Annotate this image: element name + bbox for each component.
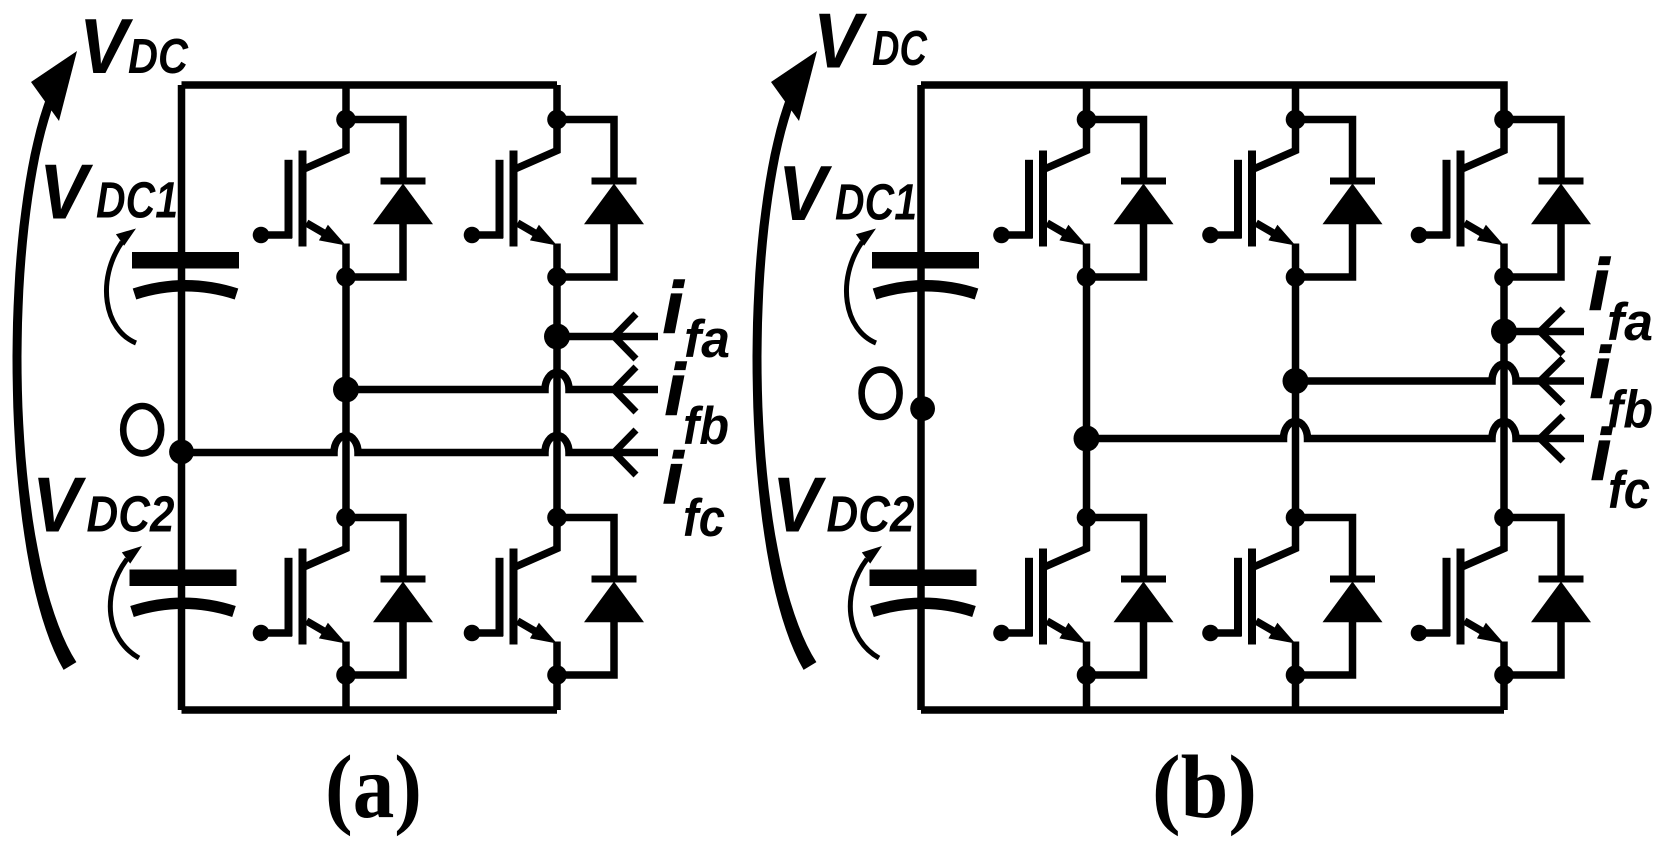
svg-text:DC: DC xyxy=(872,22,927,76)
node: b leg2 top junction xyxy=(1286,110,1306,130)
arrow: ifc current arrow (b) xyxy=(1540,416,1563,461)
svg-text:fc: fc xyxy=(1608,461,1650,520)
svg-text:fa: fa xyxy=(1607,293,1653,352)
node: phase a tap (a) xyxy=(544,324,570,350)
wire: left DC-link rail (b) xyxy=(917,85,925,710)
node: leg1 bottom junction xyxy=(336,665,356,685)
node label O (a) xyxy=(123,406,161,453)
transistor Q1 (b, top leg1) xyxy=(993,120,1086,278)
node: phase b tap (a) xyxy=(333,377,359,403)
arrow: ifc current arrow (a) xyxy=(614,430,636,475)
node: leg2 upper-emitter junction xyxy=(547,267,567,287)
wire: leg B1 drop from rail xyxy=(1083,85,1091,120)
svg-text:DC1: DC1 xyxy=(835,174,917,231)
svg-text:fb: fb xyxy=(1607,381,1653,440)
node: leg2 lower top junction xyxy=(547,508,567,528)
wire: phase c output line ifc (b) with hops xyxy=(1087,422,1585,439)
wire: top DC+ rail (b) xyxy=(921,85,1504,120)
wire: leg A2 mid section xyxy=(553,277,561,518)
node O midpoint dot (a) xyxy=(169,440,194,465)
transistor Q2 (a, top leg2) xyxy=(464,120,557,278)
arrow: VDC2 measurement arc (b) xyxy=(850,559,879,658)
wire: leg A1 mid section xyxy=(342,277,350,518)
wire: phase a output line ifa (a) xyxy=(557,333,658,341)
node: phase a tap (b) xyxy=(1491,319,1517,345)
wire: leg B2 bottom to rail xyxy=(1292,675,1300,710)
arrow: VDC measurement arc (a) xyxy=(13,96,77,670)
svg-text:fc: fc xyxy=(683,489,725,548)
wire: top DC+ rail (a) xyxy=(182,81,558,89)
transistor Q1 (a, top leg1) xyxy=(253,120,346,278)
svg-text:fa: fa xyxy=(684,310,730,369)
node: b leg1 bottom junction xyxy=(1077,665,1097,685)
svg-text:DC2: DC2 xyxy=(827,486,915,543)
arrow: ifa current arrow (a) xyxy=(614,314,636,359)
transistor Q3 (b, top leg3) xyxy=(1411,120,1504,278)
transistor Q4 (a, bottom leg2) xyxy=(464,518,557,676)
node: leg2 bottom junction xyxy=(547,665,567,685)
node: phase c tap (b) xyxy=(1074,426,1100,452)
arrow: VDC2 measurement arc (a) xyxy=(110,559,139,658)
arrow: ifb current arrow (b) xyxy=(1540,359,1563,404)
arrow: VDC measurement arc (b) xyxy=(753,96,817,670)
svg-text:DC1: DC1 xyxy=(96,172,178,229)
capacitor C1 (b) VDC1 xyxy=(872,252,979,294)
svg-text:fb: fb xyxy=(683,397,729,456)
node: b leg1 lower top junction xyxy=(1077,508,1097,528)
wire: bottom DC- rail (b) xyxy=(921,706,1504,714)
diode D1 (b, top leg1) xyxy=(1087,120,1174,278)
svg-text:V: V xyxy=(32,461,87,549)
transistor Q6 (b, bottom leg3) xyxy=(1411,518,1504,676)
node: leg1 upper-emitter junction xyxy=(336,267,356,287)
diode D4 (b, bottom leg1) xyxy=(1087,518,1174,676)
node: leg1 top junction xyxy=(336,110,356,130)
diode D2 (b, top leg2) xyxy=(1296,120,1383,278)
node: b leg3 lower top junction xyxy=(1494,508,1514,528)
wire: phase b output line ifb (a) with hop xyxy=(346,373,658,390)
arrow: VDC1 measurement arc (b) xyxy=(846,242,876,343)
capacitor C1 (a) VDC1 xyxy=(132,252,239,294)
diode D2 (a, top leg2) xyxy=(557,120,644,278)
svg-text:DC2: DC2 xyxy=(87,486,175,543)
arrow: ifb current arrow (a) xyxy=(614,367,636,412)
wire: leg B3 bottom to rail xyxy=(1500,675,1508,710)
svg-text:V: V xyxy=(39,147,94,235)
svg-text:DC: DC xyxy=(128,30,189,84)
wire: leg B3 mid section xyxy=(1500,277,1508,518)
diode D5 (b, bottom leg2) xyxy=(1296,518,1383,676)
svg-text:V: V xyxy=(79,2,134,90)
node O dot (b) xyxy=(910,396,935,421)
node: leg1 lower top junction xyxy=(336,508,356,528)
arrow: ifa current arrow (b) xyxy=(1540,309,1563,354)
node: b leg3 top junction xyxy=(1494,110,1514,130)
transistor Q3 (a, bottom leg1) xyxy=(253,518,346,676)
transistor Q2 (b, top leg2) xyxy=(1202,120,1295,278)
wire: leg A2 drop from rail xyxy=(553,85,561,120)
node: b leg3 upper-emitter junction xyxy=(1494,267,1514,287)
svg-text:V: V xyxy=(813,0,868,85)
wire: phase a output line ifa (b) xyxy=(1504,328,1584,336)
diode D6 (b, bottom leg3) xyxy=(1504,518,1591,676)
capacitor C2 (b) VDC2 xyxy=(870,570,977,612)
diode D3 (b, top leg3) xyxy=(1504,120,1591,278)
diode D1 (a, top leg1) xyxy=(346,120,433,278)
transistor Q4 (b, bottom leg1) xyxy=(993,518,1086,676)
wire: leg A2 bottom to rail xyxy=(553,675,561,710)
wire: leg B2 drop from rail xyxy=(1292,85,1300,120)
arrow: VDC1 measurement arc (a) xyxy=(106,242,136,343)
diode D3 (a, bottom leg1) xyxy=(346,518,433,676)
node: leg2 top junction xyxy=(547,110,567,130)
capacitor C2 (a) VDC2 xyxy=(130,570,237,612)
node: b leg1 top junction xyxy=(1077,110,1097,130)
svg-text:i: i xyxy=(663,439,685,519)
wire: leg A1 bottom to rail xyxy=(342,675,350,710)
svg-text:(a): (a) xyxy=(325,738,422,837)
svg-text:V: V xyxy=(778,149,833,237)
node: b leg2 upper-emitter junction xyxy=(1286,267,1306,287)
wire: left DC-link rail (a) xyxy=(178,85,186,710)
wire: leg B1 bottom to rail xyxy=(1083,675,1091,710)
wire: leg A1 collector drop from rail xyxy=(342,85,350,120)
node: b leg1 upper-emitter junction xyxy=(1077,267,1097,287)
svg-text:V: V xyxy=(772,461,827,549)
wire: phase c output line ifc (a) from O with hops xyxy=(182,436,659,453)
wire: phase b output line ifb (b) with hop xyxy=(1296,364,1585,381)
diode D4 (a, bottom leg2) xyxy=(557,518,644,676)
svg-text:(b): (b) xyxy=(1152,738,1257,837)
node: b leg3 bottom junction xyxy=(1494,665,1514,685)
node label O (b) xyxy=(862,370,900,417)
wire: leg B2 mid section xyxy=(1292,277,1300,518)
wire: bottom DC- rail (a) xyxy=(182,706,558,714)
svg-text:i: i xyxy=(663,269,685,349)
node: b leg2 lower top junction xyxy=(1286,508,1306,528)
wire: leg B1 mid section xyxy=(1083,277,1091,518)
node: b leg2 bottom junction xyxy=(1286,665,1306,685)
node: phase b tap (b) xyxy=(1283,368,1309,394)
transistor Q5 (b, bottom leg2) xyxy=(1202,518,1295,676)
